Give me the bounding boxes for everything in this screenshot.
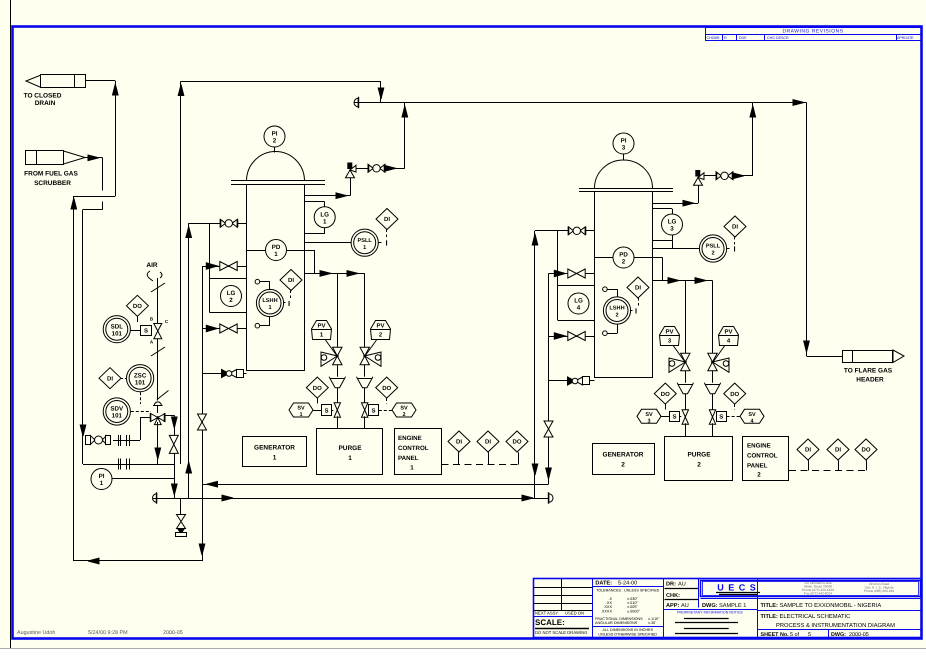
svg-text:101: 101 xyxy=(112,330,123,337)
relief valve PSV-2 xyxy=(694,170,705,185)
wire V2 inlet riser xyxy=(534,231,536,498)
signal diamond DI panel-2 a xyxy=(797,439,819,460)
svg-text:SCALE:: SCALE: xyxy=(535,618,565,627)
control valve PV-3 xyxy=(669,353,690,372)
wire header A drop xyxy=(380,81,382,102)
svg-text:TITLE:: TITLE: xyxy=(761,603,779,609)
instrument PSLL-1 xyxy=(351,229,378,256)
wire V2 relief outlet xyxy=(704,175,716,177)
orifice flanges 1 xyxy=(118,435,120,446)
check valve V1 upper xyxy=(206,263,217,270)
wire V2 relief riser to header xyxy=(752,103,754,176)
wire PV-2 pipe mid xyxy=(364,365,366,379)
svg-text:PV: PV xyxy=(665,329,673,336)
svg-text:PI: PI xyxy=(272,131,278,138)
wire ZSC dash down xyxy=(140,392,142,404)
svg-text:2000-05: 2000-05 xyxy=(163,630,183,636)
svg-text:2: 2 xyxy=(615,313,618,319)
svg-text:PROPRIETARY INFORMATION NOTICE: PROPRIETARY INFORMATION NOTICE xyxy=(677,611,743,615)
svg-text:PI: PI xyxy=(99,473,105,480)
svg-text:2: 2 xyxy=(697,462,701,469)
vent funnel PV-1 xyxy=(329,377,345,388)
panel GENERATOR 1 xyxy=(243,437,307,467)
svg-text:2: 2 xyxy=(711,251,714,257)
svg-text:DI: DI xyxy=(635,285,641,292)
svg-text:DO: DO xyxy=(661,391,670,398)
wire V2 relief to riser xyxy=(733,175,753,177)
wire PD-1 line xyxy=(247,250,315,252)
svg-text:CHGBR: CHGBR xyxy=(707,36,720,40)
solenoid S-box SDL xyxy=(141,326,152,336)
panel GENERATOR 2 xyxy=(593,444,655,475)
valve SDV-101 body xyxy=(151,414,158,422)
signal diamond DO panel-2 c xyxy=(855,439,877,460)
vent funnel PV-4 xyxy=(704,383,720,394)
wire PSLL-2 signal tick xyxy=(727,248,730,250)
svg-text:DO: DO xyxy=(313,385,322,392)
svg-text:I: I xyxy=(635,307,637,316)
svg-text:PD: PD xyxy=(272,244,281,251)
valve purge-2 block A xyxy=(682,410,688,417)
valve purge-1 block A xyxy=(334,403,340,410)
svg-text:DRAIN: DRAIN xyxy=(35,100,56,107)
control valve PV-2 xyxy=(360,347,381,366)
svg-text:SDV: SDV xyxy=(110,406,124,413)
valve V1 drain xyxy=(222,370,230,378)
wire fuel-gas main vertical xyxy=(82,210,84,465)
signal diamond DI panel-1 b xyxy=(477,431,499,452)
solenoid tag SV-2 xyxy=(392,403,416,418)
svg-text:I: I xyxy=(288,299,290,308)
svg-text:DATE:: DATE: xyxy=(595,581,612,587)
wire LSHH-1 signal tick xyxy=(284,302,286,304)
wire V1 relief riser to header xyxy=(404,103,406,169)
svg-text:UNLESS OTHERWISE SPECIFIED: UNLESS OTHERWISE SPECIFIED xyxy=(598,633,657,637)
svg-text:.XXXX: .XXXX xyxy=(601,609,613,613)
wire PSLL-2 tap xyxy=(653,248,700,250)
wire DI stem 4 xyxy=(638,298,640,306)
svg-text:S: S xyxy=(144,328,148,335)
svg-text:ZSC: ZSC xyxy=(134,372,147,379)
wire fuel bypass xyxy=(83,464,174,466)
wire SDV dash xyxy=(131,411,151,413)
svg-text:ENGINE: ENGINE xyxy=(398,435,422,442)
svg-text:PV: PV xyxy=(376,323,384,330)
svg-text:LSHH: LSHH xyxy=(609,306,624,312)
svg-text:LG: LG xyxy=(320,211,329,218)
solenoid tag SV-4 xyxy=(740,409,764,424)
wire SV-3 dash xyxy=(661,416,669,418)
wire V2 relief riser xyxy=(698,185,700,203)
svg-text:1: 1 xyxy=(410,465,414,472)
wire PD-1 drop xyxy=(314,250,316,273)
svg-text:3: 3 xyxy=(647,418,650,424)
vessel V-2 dome xyxy=(595,160,653,188)
svg-text:TO CLOSED: TO CLOSED xyxy=(24,93,62,100)
wire V1 relief nozzle xyxy=(305,195,351,197)
wire V2 relief nozzle xyxy=(653,203,699,205)
wire DI stem 2 xyxy=(290,291,292,299)
svg-text:PURGE: PURGE xyxy=(338,445,362,452)
wire DI-ZSC dash xyxy=(121,378,126,380)
vent valve xyxy=(177,515,186,522)
wire V1 relief outlet xyxy=(356,168,368,170)
wire V1 PV header xyxy=(305,273,365,275)
wire PV-3 link xyxy=(674,346,686,362)
wire PV-4 pipe mid xyxy=(712,371,714,385)
svg-text:CHK:: CHK: xyxy=(666,593,680,599)
svg-text:I: I xyxy=(734,245,736,254)
signal diamond DO near SDL xyxy=(126,295,148,316)
wire V1 inlet riser xyxy=(188,223,190,498)
wire main gas vertical xyxy=(180,81,182,464)
wire header B xyxy=(354,98,358,106)
vent stub below bus xyxy=(180,498,182,514)
svg-text:101: 101 xyxy=(112,413,123,420)
wire LSHH-1 hooks xyxy=(255,279,260,284)
svg-text:PV: PV xyxy=(724,329,732,336)
signal diamond DI near PSLL-1 xyxy=(376,209,398,230)
svg-text:DO: DO xyxy=(133,303,142,310)
svg-text:2: 2 xyxy=(402,412,405,418)
signal diamond DO near PV-2 xyxy=(376,377,398,398)
wire PV-3 pipe mid xyxy=(685,371,687,385)
signal diamond DI near PSLL-2 xyxy=(724,216,746,237)
wire PSLL-1 signal tick xyxy=(378,242,381,244)
signal diamond DO panel-1 c xyxy=(506,431,528,452)
signal diamond DI panel-2 b xyxy=(827,439,849,460)
svg-text:USED ON: USED ON xyxy=(565,611,584,616)
svg-text:101: 101 xyxy=(135,379,146,386)
svg-text:S: S xyxy=(719,414,723,421)
svg-text:S: S xyxy=(324,407,328,414)
svg-text:SAMPLE 1: SAMPLE 1 xyxy=(719,603,746,609)
wire fuel train xyxy=(113,440,140,442)
svg-text:DR:: DR: xyxy=(666,582,676,588)
svg-text:PROCESS & INSTRUMENTATION DIA: PROCESS & INSTRUMENTATION DIAGRAM xyxy=(776,622,895,629)
svg-text:1: 1 xyxy=(268,305,271,311)
wire PV-2 pipe upper xyxy=(364,273,366,347)
svg-text:5-24-00: 5-24-00 xyxy=(618,581,637,587)
air slash 1 xyxy=(151,283,165,292)
wire purge-1 drop A xyxy=(337,416,339,429)
svg-text:CHG DESCR: CHG DESCR xyxy=(767,36,789,40)
svg-text:1: 1 xyxy=(100,480,104,487)
control valve PV-4 xyxy=(708,353,729,372)
wire bus 2 xyxy=(152,494,156,502)
valve purge-2 block B xyxy=(709,410,715,417)
svg-text:5 of: 5 of xyxy=(790,632,799,638)
valve SDV bypass hourglass xyxy=(169,435,178,444)
SDV actuator xyxy=(153,402,163,413)
wire V2 check line upper xyxy=(549,273,595,275)
instrument ZSC-101 xyxy=(127,365,154,392)
solenoid S-box B xyxy=(369,405,379,416)
svg-text:APRDATE: APRDATE xyxy=(897,36,914,40)
air slash 3 xyxy=(157,391,169,400)
valve V2 relief isolation xyxy=(716,172,721,180)
wire DI stem xyxy=(386,230,388,238)
svg-text:2: 2 xyxy=(622,259,626,266)
wire fuel-gas flag outlet xyxy=(85,157,103,159)
svg-text:DI: DI xyxy=(485,439,491,446)
3-way solenoid valve xyxy=(150,317,169,345)
wire DI stem 3 xyxy=(734,237,736,245)
svg-text:LG: LG xyxy=(227,290,236,297)
instrument PI-1 xyxy=(91,469,112,490)
svg-text:AU: AU xyxy=(681,603,689,609)
svg-text:HEADER: HEADER xyxy=(856,377,884,384)
valve tag PV-2 xyxy=(371,321,391,340)
wire purge-1 drop B xyxy=(364,416,366,429)
svg-text:PD: PD xyxy=(619,252,628,259)
wire DO stem A xyxy=(317,398,319,404)
wire SV-2 dash xyxy=(368,410,370,412)
instrument LG-3 xyxy=(662,214,683,235)
wire V1 check line lower xyxy=(202,328,247,330)
instrument PI-3 xyxy=(613,133,634,154)
orifice flanges 2 xyxy=(118,459,120,470)
svg-text:1: 1 xyxy=(274,251,278,258)
svg-text:S: S xyxy=(672,414,676,421)
wire drain collector bottom xyxy=(74,560,202,562)
svg-text:DUE: DUE xyxy=(739,36,747,40)
wire DO-SDL stem xyxy=(137,316,139,322)
svg-text:2: 2 xyxy=(229,297,233,304)
wire V2 side vertical xyxy=(548,274,550,485)
signal diamond DO near PV-1 xyxy=(306,377,328,398)
instrument PI-2 xyxy=(264,126,285,147)
svg-text:SV: SV xyxy=(645,412,653,418)
relief valve PSV-1 xyxy=(346,163,357,178)
wire V1 check line upper xyxy=(202,266,247,268)
svg-text:2: 2 xyxy=(621,462,625,469)
wire fuel-gas down segment xyxy=(102,158,104,191)
vessel V-2 shell xyxy=(595,192,653,378)
wire V1 side vertical xyxy=(202,266,204,561)
signal diamond DI near LSHH-1 xyxy=(280,270,302,291)
solenoid S-box D xyxy=(717,412,727,422)
svg-text:ALL DIMENSIONS IN INCHES: ALL DIMENSIONS IN INCHES xyxy=(602,628,653,632)
wire PV-3 pipe lower xyxy=(685,394,687,410)
svg-text:TO FLARE GAS: TO FLARE GAS xyxy=(844,368,893,375)
svg-text:LSHH: LSHH xyxy=(262,298,277,304)
wire air line lower xyxy=(157,339,159,401)
panel PURGE 1 xyxy=(317,429,383,475)
svg-text:DO: DO xyxy=(730,391,739,398)
valve V1 relief isolation xyxy=(368,164,373,172)
wire closed-drain flag outlet xyxy=(85,80,115,82)
flag TO CLOSED DRAIN xyxy=(24,75,86,107)
svg-text:DO: DO xyxy=(862,447,871,454)
instrument LG-2 xyxy=(221,286,242,307)
check valve V2 lower xyxy=(554,333,565,340)
instrument PD-2 xyxy=(613,247,634,268)
instrument LG-4 xyxy=(568,293,589,314)
svg-text:±.30': ±.30' xyxy=(648,621,656,625)
signal diamond DO near PV-4 xyxy=(724,383,746,404)
svg-text:DI: DI xyxy=(835,447,841,454)
svg-text:CONTROL: CONTROL xyxy=(747,453,778,460)
svg-text:LG: LG xyxy=(574,298,583,305)
svg-text:NEXT ASSY.: NEXT ASSY. xyxy=(535,611,559,616)
svg-text:DI: DI xyxy=(107,375,113,382)
svg-text:DRAWING REVISIONS: DRAWING REVISIONS xyxy=(782,29,843,35)
wire PI-2 stem xyxy=(274,148,276,153)
wire V1 relief riser xyxy=(350,178,352,196)
svg-text:GENERATOR: GENERATOR xyxy=(254,445,295,452)
flag TO FLARE GAS HEADER xyxy=(843,350,905,384)
vent funnel PV-2 xyxy=(357,377,373,388)
svg-text:Fax (972) 442-8014: Fax (972) 442-8014 xyxy=(804,592,832,596)
svg-text:ENGINE: ENGINE xyxy=(747,443,771,450)
svg-text:PSLL: PSLL xyxy=(358,238,373,244)
svg-text:4: 4 xyxy=(577,305,581,312)
svg-text:±.0005": ±.0005" xyxy=(627,609,641,613)
svg-text:AIR: AIR xyxy=(146,262,158,269)
wire PV-2 link xyxy=(365,340,377,356)
svg-text:I: I xyxy=(386,239,388,248)
wire PV-1 pipe upper xyxy=(337,273,339,347)
instrument LSHH-2 xyxy=(603,297,630,324)
svg-text:DO NOT SCALE DRAWING: DO NOT SCALE DRAWING xyxy=(535,630,587,635)
svg-text:1: 1 xyxy=(323,218,327,225)
fuel gas inlet valve xyxy=(86,436,111,445)
wire panel-1 dash xyxy=(442,464,519,466)
svg-text:AU: AU xyxy=(678,582,686,588)
valve purge-1 block B xyxy=(362,403,368,410)
wire PV-4 link xyxy=(713,346,725,362)
svg-text:2000-05: 2000-05 xyxy=(849,632,869,638)
svg-text:ELECTRICAL SCHEMATIC: ELECTRICAL SCHEMATIC xyxy=(780,613,851,620)
title block xyxy=(534,578,922,638)
wire V1 drain line xyxy=(202,373,247,375)
valve V1 side hourglass xyxy=(198,414,207,422)
solenoid tag SV-1 xyxy=(289,403,313,418)
wire DO stem C xyxy=(665,404,667,410)
svg-text:SV: SV xyxy=(297,406,305,412)
wire PSLL-1 tap xyxy=(305,242,352,244)
svg-text:3: 3 xyxy=(622,145,626,152)
svg-text:DWG:: DWG: xyxy=(702,603,718,609)
instrument SDV-101 xyxy=(103,398,130,425)
svg-text:SV: SV xyxy=(400,406,408,412)
svg-text:Phone (085) 204-249: Phone (085) 204-249 xyxy=(864,589,894,593)
svg-text:1: 1 xyxy=(363,245,366,251)
vessel V-1 dome xyxy=(247,152,305,182)
svg-text:PANEL: PANEL xyxy=(398,455,419,462)
wire LSHH-2 hooks xyxy=(603,287,608,292)
air supply hook xyxy=(147,271,153,281)
svg-text:SCRUBBER: SCRUBBER xyxy=(34,180,71,187)
wire V1 inlet line xyxy=(189,223,247,225)
svg-text:SAMPLE TO EXXONMOBIL - NIGERI: SAMPLE TO EXXONMOBIL - NIGERIA xyxy=(780,602,882,609)
instrument PD-1 xyxy=(266,240,287,261)
vent funnel PV-3 xyxy=(677,383,693,394)
drawing revisions table xyxy=(706,28,923,41)
air slash 2 xyxy=(151,347,165,356)
wire LG-1 taps xyxy=(305,201,325,203)
svg-text:DO: DO xyxy=(513,439,522,446)
svg-text:S: S xyxy=(371,407,375,414)
vessel V-1 shell xyxy=(247,185,305,371)
wire SV-4 dash xyxy=(727,416,740,418)
svg-text:PURGE: PURGE xyxy=(687,452,711,459)
panel ENGINE CONTROL PANEL 2 xyxy=(743,437,789,481)
wire SDV outlet xyxy=(165,415,174,417)
wire V2 inlet line xyxy=(535,230,595,232)
wire PV-1 pipe mid xyxy=(337,365,339,379)
signal diamond DI near ZSC xyxy=(99,368,121,389)
svg-text:APP:: APP: xyxy=(666,603,680,609)
svg-text:3: 3 xyxy=(670,226,674,233)
svg-text:PV: PV xyxy=(317,323,325,330)
wire drain main vertical xyxy=(73,196,75,561)
valve V2 drain xyxy=(568,377,576,385)
wire LG-3 taps xyxy=(653,208,673,210)
wire PI-1 line xyxy=(113,478,175,480)
wire fuel train riser xyxy=(140,418,142,441)
wire V2 check line lower xyxy=(549,336,595,338)
sheet edge line xyxy=(10,0,12,648)
valve V2 side hourglass xyxy=(544,421,553,429)
svg-text:1: 1 xyxy=(348,455,352,462)
signal diamond DI near LSHH-2 xyxy=(627,277,649,298)
wire V2 PV header xyxy=(653,280,713,282)
svg-text:PSLL: PSLL xyxy=(706,244,721,250)
panel PURGE 2 xyxy=(665,437,733,481)
svg-text:2: 2 xyxy=(757,472,761,479)
solenoid S-box A xyxy=(322,405,332,416)
wire panel-2 dash xyxy=(789,470,867,472)
valve tag PV-4 xyxy=(719,327,739,346)
check valve V2 upper xyxy=(554,270,565,277)
svg-text:R: R xyxy=(724,36,727,40)
flag FROM FUEL GAS SCRUBBER xyxy=(24,151,85,187)
svg-text:5/24/00 9:28 PM: 5/24/00 9:28 PM xyxy=(88,630,128,636)
svg-text:TITLE:: TITLE: xyxy=(761,614,779,620)
wire flare drop xyxy=(806,103,808,357)
svg-text:DI: DI xyxy=(732,224,738,231)
solenoid S-box C xyxy=(670,412,680,422)
wire DO stem D xyxy=(734,404,736,410)
wire PV-1 link xyxy=(326,340,338,356)
vessel V-2 flange xyxy=(579,188,673,190)
wire PD-2 line xyxy=(595,257,663,259)
svg-text:FROM FUEL GAS: FROM FUEL GAS xyxy=(24,171,78,178)
svg-text:DWG:: DWG: xyxy=(831,632,846,638)
svg-text:PI: PI xyxy=(621,138,627,145)
wire LG-4 taps xyxy=(558,285,595,287)
valve V1 inlet xyxy=(220,219,225,227)
signal diamond DO near PV-3 xyxy=(654,383,676,404)
instrument LSHH-1 xyxy=(256,289,283,316)
svg-text:1: 1 xyxy=(273,455,277,462)
wire LG-2 taps xyxy=(210,278,247,280)
wire PI-3 stem xyxy=(623,155,625,160)
svg-text:GENERATOR: GENERATOR xyxy=(603,452,644,459)
svg-text:CONTROL: CONTROL xyxy=(398,445,429,452)
svg-text:DI: DI xyxy=(288,277,294,284)
wire fuel-gas jog xyxy=(83,209,103,211)
wire V1 relief to riser xyxy=(385,168,405,170)
valve tag PV-1 xyxy=(312,321,332,340)
svg-text:SV: SV xyxy=(748,412,756,418)
wire air line upper xyxy=(157,278,159,324)
vessel V-1 flange xyxy=(231,180,325,182)
wire purge-2 drop B xyxy=(712,423,714,437)
svg-text:5: 5 xyxy=(808,632,811,638)
